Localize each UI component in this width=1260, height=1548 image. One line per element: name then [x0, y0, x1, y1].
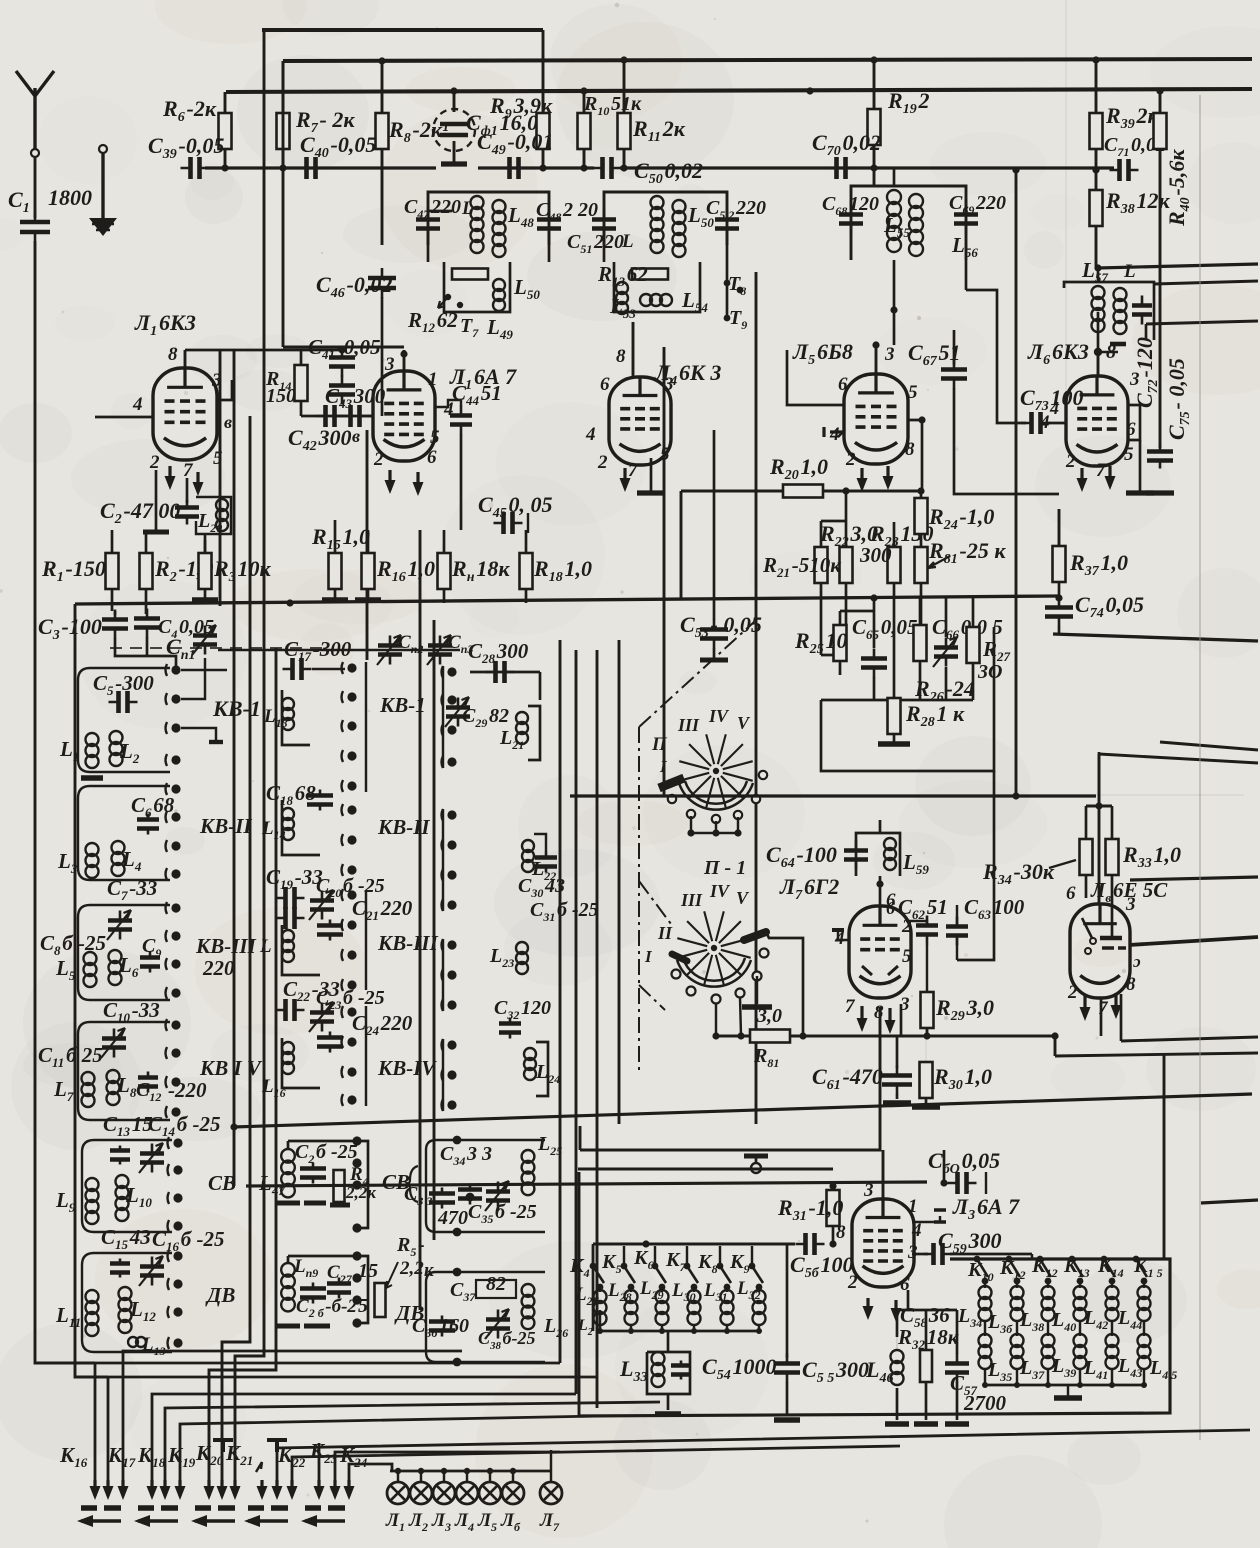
- switch contact col3 KV-III 2: [447, 970, 456, 979]
- svg-text:L: L: [1123, 261, 1136, 282]
- cathode arrow L5: [860, 468, 863, 488]
- svg-text:3: 3: [384, 354, 395, 375]
- switch contact col1 DV 2: [173, 1279, 182, 1288]
- resistor R16: [362, 553, 375, 589]
- potentiometer R81-25k: [915, 547, 928, 583]
- ground stub wafer2: [756, 976, 758, 1004]
- svg-text:5: 5: [1124, 444, 1134, 465]
- inductor L29: [656, 1290, 669, 1303]
- svg-text:470: 470: [437, 1207, 468, 1229]
- svg-text:R34 -30к: R34 -30к: [982, 859, 1055, 888]
- resistor R38: [1090, 190, 1103, 226]
- capacitor C5: [109, 701, 138, 704]
- resistor R14: [295, 365, 308, 401]
- wire exit right y268: [1098, 264, 1258, 268]
- contact ring w2 e: [753, 972, 762, 981]
- resistor R24: [915, 498, 928, 534]
- wire C69 down: [965, 260, 968, 290]
- wire C1 down left edge to K16 fan: [35, 241, 95, 1363]
- cathode arrow L3 b: [894, 1300, 897, 1318]
- resistor R8: [376, 113, 389, 149]
- inductor L16: [282, 1042, 294, 1054]
- left arrow: [195, 1519, 235, 1522]
- switch contact col2 KV-III 4: [347, 980, 356, 989]
- svg-text:C5 2 220: C5 2 220: [706, 197, 766, 222]
- wire C3 C4 bottoms to KV-I box: [115, 638, 176, 666]
- svg-text:2: 2: [597, 452, 608, 473]
- wire L8 cathode down: [1100, 998, 1103, 1036]
- wire col3 SV box: [426, 1140, 545, 1232]
- contact dot col3 DV top: [453, 1268, 462, 1277]
- inductor L50b: [673, 200, 686, 213]
- capacitor C39: [181, 167, 210, 170]
- tube L4 6K3: [609, 377, 671, 465]
- wire M9 y1124: [233, 1094, 1252, 1127]
- switch contact col1 KV-II 4: [171, 869, 180, 878]
- svg-text:-220: -220: [168, 1078, 207, 1102]
- svg-text:CбО 0,05: CбО 0,05: [928, 1148, 1000, 1177]
- svg-text:П: П: [651, 734, 668, 755]
- trimmer C29: [457, 698, 460, 727]
- resistor R12: [452, 269, 488, 280]
- switch contact col2 KV-IV 1: [347, 1007, 356, 1016]
- cathode arrow L2: [388, 470, 391, 490]
- IF transformer L55 L56 box: [851, 186, 966, 207]
- resistor R2: [140, 553, 153, 589]
- wire L3 pin3 top: [882, 1150, 885, 1199]
- signal lamp P2: [410, 1482, 432, 1504]
- switch contact col2 KV-III 3: [347, 950, 356, 959]
- wire exit right y879: [1130, 877, 1258, 880]
- jack symbol: [744, 1154, 768, 1159]
- wire L3 pin5 to C59: [912, 1253, 928, 1256]
- wire col2 KV-III bracket: [365, 890, 367, 990]
- inductor L2: [110, 731, 123, 744]
- inductor L47: [471, 196, 484, 209]
- switch contact col1 KV-III 4: [171, 988, 180, 997]
- wire pin8 top L1: [184, 350, 187, 368]
- wire col3 KV-IV coil: [536, 1042, 548, 1096]
- capacitor C4: [146, 609, 149, 638]
- svg-text:3: 3: [1125, 894, 1136, 915]
- inductor L7: [82, 1072, 95, 1085]
- wire C46 down to grid row: [381, 297, 384, 416]
- signal lamp P3: [433, 1482, 455, 1504]
- svg-text:6: 6: [427, 447, 437, 468]
- wire x756 long vertical: [755, 272, 758, 1124]
- capacitor C57: [956, 1354, 959, 1383]
- wire L1 top to Л2 row: [185, 349, 342, 352]
- svg-text:C49 -0,01: C49 -0,01: [477, 129, 553, 158]
- cathode arrow L2 b: [416, 472, 419, 492]
- switch contact col1 KV-III 3: [171, 959, 180, 968]
- wire L4 cathode to gnd bar: [650, 458, 653, 491]
- tube L8 6E5S: [1070, 904, 1130, 998]
- band KV-III bank box col1: [78, 905, 170, 1000]
- wire M5 y796: [570, 794, 1096, 797]
- switch contact K7: [684, 1263, 691, 1270]
- capacitor C56: [796, 1243, 825, 1246]
- svg-text:8: 8: [168, 344, 178, 365]
- band DV bank box col1: [82, 1253, 172, 1352]
- node M2 R19: [870, 594, 877, 601]
- capacitor C64: [855, 841, 858, 870]
- svg-text:C65 0,05: C65 0,05: [852, 615, 918, 642]
- svg-text:C2 б -25: C2 б -25: [295, 1141, 358, 1166]
- wire col2 KV-III: [282, 925, 320, 975]
- switch box K10-K15 outline: [579, 1259, 1170, 1416]
- wire col3 KV-I coil: [528, 706, 540, 760]
- wire L3 pin6 down: [907, 1290, 910, 1310]
- capacitor C36: [441, 1316, 444, 1337]
- inductor L5: [84, 952, 97, 965]
- svg-text:КВ-IІІ: КВ-IІІ: [195, 934, 257, 958]
- node lamp 2: [418, 1468, 424, 1474]
- wire L5 pin5 to R20 row: [908, 420, 922, 489]
- switch contact col1 KV-IV 4: [171, 1107, 180, 1116]
- wire K10 top line: [950, 1258, 1170, 1261]
- svg-text:R1 -150: R1 -150: [41, 556, 106, 585]
- inductor L8: [107, 1070, 120, 1083]
- board edge dash pair: [138, 1505, 178, 1511]
- switch contact col3 KV-I 3: [447, 725, 456, 734]
- output arrow 12: [290, 1480, 293, 1496]
- switch contact col1 DV 4: [173, 1338, 182, 1347]
- resistor R37: [1053, 546, 1066, 582]
- resistor R20: [783, 485, 823, 498]
- svg-text:C14 б -25: C14 б -25: [148, 1112, 221, 1139]
- svg-text:R6 -2к: R6 -2к: [162, 96, 217, 125]
- inductor L4: [112, 841, 125, 854]
- wire R22 top: [845, 491, 848, 547]
- output arrow 10: [260, 1480, 263, 1496]
- wire fan K24b: [335, 1452, 560, 1480]
- trimmer C20: [321, 891, 324, 920]
- inductor L46: [891, 1350, 904, 1363]
- wire bundle x367: [366, 430, 369, 660]
- wire C59 to K10 box: [950, 1253, 1032, 1256]
- output arrow 15: [347, 1480, 350, 1496]
- wire L7 pin6 up: [879, 876, 882, 906]
- inductor L24: [524, 1048, 536, 1060]
- wire L1 grid left: [95, 416, 153, 419]
- capacitor C27: [338, 1278, 341, 1299]
- wire under wafer1: [691, 832, 738, 834]
- svg-text:6: 6: [1066, 883, 1076, 904]
- wire C63 right riser: [957, 771, 994, 960]
- eye electrode L8: [1100, 936, 1122, 940]
- inductor L39 lower: [1042, 1334, 1055, 1347]
- terminal bars col2 DV: [276, 1324, 330, 1329]
- capacitor C17: [283, 668, 312, 671]
- wire R20 row y491: [681, 490, 921, 493]
- switch contact col1 DV 1: [173, 1251, 182, 1260]
- trimmer C16 body: [151, 1257, 154, 1286]
- wire fan K18: [123, 1351, 462, 1480]
- switch contact K5: [621, 1263, 628, 1270]
- output arrow 1: [93, 1480, 96, 1496]
- wire col3 KV-III bracket: [442, 939, 444, 1011]
- svg-text:C54 1000: C54 1000: [702, 1354, 777, 1383]
- svg-text:КВ-II: КВ-II: [377, 815, 430, 839]
- inductor L26: [522, 1284, 535, 1297]
- capacitor C67: [953, 360, 956, 389]
- ground below R30: [912, 1104, 940, 1110]
- svg-text:15: 15: [358, 1260, 378, 1282]
- svg-text:R33 1,0: R33 1,0: [1122, 842, 1181, 871]
- svg-text:R18 1,0: R18 1,0: [533, 556, 592, 585]
- inductor L56: [909, 194, 923, 208]
- switch contact T7: [445, 294, 451, 300]
- switch contact K10: [974, 1256, 981, 1263]
- capacitor C63: [956, 917, 959, 946]
- switch contact col3 KV-II 3: [447, 870, 456, 879]
- wire cluster link y655: [821, 654, 846, 657]
- svg-text:II: II: [657, 923, 673, 943]
- svg-text:7: 7: [1098, 998, 1109, 1019]
- svg-text:2: 2: [901, 916, 912, 937]
- resistor R21: [815, 547, 828, 583]
- inductor L57: [1092, 286, 1105, 299]
- wire K4 box top: [593, 1243, 752, 1245]
- resistor R26: [914, 625, 927, 661]
- contact ring w1 a: [668, 795, 676, 803]
- IF transformer L47 L48 box: [428, 192, 549, 245]
- inductor L11: [86, 1290, 99, 1303]
- capacitor C21: [329, 920, 332, 941]
- node bus3-Cf1: [450, 87, 457, 94]
- inductor L59: [884, 838, 896, 850]
- resistor R1: [106, 553, 119, 589]
- ground below C61: [883, 1100, 911, 1106]
- node lamp 4: [464, 1468, 470, 1474]
- node bus2-R11: [620, 56, 627, 63]
- switch contact col1 KV-IV 2: [171, 1048, 180, 1057]
- band KV-I bank box col1: [78, 668, 170, 772]
- resistor R6: [219, 113, 232, 149]
- capacitor C13 body: [119, 1146, 122, 1165]
- ground below R28: [878, 741, 910, 747]
- mechanical link dashed line: [218, 649, 460, 651]
- output arrow 14: [333, 1480, 336, 1496]
- trimmer C35: [497, 1182, 500, 1211]
- svg-text:C40 -0,05: C40 -0,05: [300, 132, 376, 161]
- inductor L53: [616, 282, 628, 294]
- trimmer C11: [113, 1029, 116, 1058]
- svg-text:C69 220: C69 220: [949, 192, 1006, 217]
- capacitor C2 4700: [186, 500, 189, 525]
- output arrow 2: [106, 1480, 109, 1496]
- output arrow 13: [317, 1480, 320, 1496]
- output arrow 11: [275, 1480, 278, 1496]
- capacitor C20 body: [276, 917, 305, 920]
- left arrow: [305, 1519, 345, 1522]
- wire exit right y1203: [1201, 1200, 1258, 1203]
- svg-text:C50 0,02: C50 0,02: [634, 158, 703, 187]
- switch contact col2 KV-III 1: [347, 890, 356, 899]
- switch contact col3 KV-II 1: [447, 810, 456, 819]
- node pin8 L6: [1094, 348, 1102, 356]
- inductor L9: [86, 1178, 99, 1191]
- svg-text:300: 300: [859, 543, 892, 567]
- switch contact col2 KV-I 4: [347, 751, 356, 760]
- wire L1 pin3 to grid cap: [217, 380, 232, 400]
- IF transformer L57 L58 box: [1064, 282, 1154, 340]
- capacitor C47: [427, 210, 430, 239]
- resistor R10: [578, 113, 591, 149]
- resistor R31: [827, 1190, 840, 1226]
- switch contact col2 SV 1: [352, 1136, 361, 1145]
- inductor L22: [522, 840, 534, 852]
- capacitor C6: [147, 814, 150, 835]
- svg-text:П - 1: П - 1: [703, 857, 746, 879]
- wire riser x1099 to R bar: [1098, 752, 1101, 806]
- capacitor C15 body: [119, 1259, 122, 1278]
- wire antenna to C1: [34, 157, 37, 218]
- node bus3: [806, 87, 813, 94]
- wire fan lamp feed: [349, 1464, 392, 1480]
- wire bottom section left edge: [578, 1172, 581, 1416]
- switch contact col1 SV 1: [173, 1138, 182, 1147]
- wire C44 down: [460, 434, 463, 530]
- inductor L10: [116, 1175, 129, 1188]
- inductor L21: [516, 712, 528, 724]
- svg-text:1800: 1800: [48, 185, 92, 210]
- wire bus3 to R40: [1159, 91, 1162, 113]
- wire top bus 3: [226, 89, 1252, 92]
- wire wafer2 pin down b: [740, 997, 741, 1036]
- switch contact K4: [590, 1263, 597, 1270]
- capacitor C25: [312, 1163, 315, 1184]
- resistor R29 3.0: [921, 992, 934, 1028]
- wire fan K20: [165, 1402, 660, 1480]
- wire L1 pin7 to C2: [186, 478, 189, 503]
- wire col3 KV-IV bracket: [442, 1039, 444, 1111]
- switch contact col1 KV-I 4: [171, 755, 180, 764]
- svg-text:C31 б -25: C31 б -25: [530, 899, 599, 924]
- resistor R27: [967, 627, 980, 663]
- switch contact col2 KV-II 3: [347, 865, 356, 874]
- wire C67 to R37: [954, 388, 1059, 494]
- svg-text:4: 4: [1049, 398, 1059, 418]
- switch contact col2 SV 2: [352, 1158, 361, 1167]
- svg-text:R37 1,0: R37 1,0: [1069, 550, 1128, 579]
- wire bundle x234: [233, 350, 236, 1186]
- switch contact col1 KV-II 1: [171, 784, 180, 793]
- wire vertical x1164 down to K10 box: [1163, 1055, 1166, 1259]
- wire step x1055 to y1055: [1054, 1036, 1057, 1056]
- capacitor C59: [924, 1253, 953, 1256]
- cathode arrow L7 b: [888, 1008, 891, 1030]
- contact dot col3 DV bottom: [453, 1358, 462, 1367]
- wire L3 pin1 stub: [912, 1216, 940, 1222]
- inductor L42 upper: [1106, 1286, 1119, 1299]
- wire bundle x434: [433, 620, 436, 1240]
- resistor R13 body: [632, 269, 668, 280]
- switch contact col1 KV-IV 3: [171, 1077, 180, 1086]
- svg-text:Л7 6Г2: Л7 6Г2: [779, 874, 839, 903]
- svg-text:8: 8: [1126, 974, 1136, 995]
- switch contact col2 KV-IV 4: [347, 1095, 356, 1104]
- wire L57 top: [1097, 268, 1100, 282]
- wire y752 from x1099: [1098, 754, 1101, 905]
- wire L6 grid riser: [1065, 0, 1067, 424]
- trimmer Cp2 at top col2: [389, 636, 392, 665]
- capacitor C32: [509, 1018, 512, 1039]
- coil L20 box: [196, 497, 231, 534]
- inductor L36 upper: [1011, 1286, 1024, 1299]
- svg-text:R40 -5,6к: R40 -5,6к: [1164, 149, 1193, 227]
- board edge dash pair: [81, 1505, 121, 1511]
- wire L59 top up: [879, 820, 882, 833]
- wire col2 KV-I bracket: [365, 662, 367, 792]
- wire long vertical x576: [575, 650, 578, 1394]
- wire R40 down to C75: [1159, 149, 1162, 448]
- capacitor C70: [827, 167, 856, 170]
- svg-text:C28 300: C28 300: [468, 639, 529, 666]
- svg-text:C46 -0,02: C46 -0,02: [316, 272, 392, 301]
- resistor R32: [920, 1350, 932, 1382]
- switch contact K15: [1133, 1256, 1140, 1263]
- wire long vertical x597: [596, 650, 599, 1408]
- contact ring w1 d: [734, 811, 742, 819]
- contact ring w2 b: [687, 987, 696, 996]
- svg-text:СВ: СВ: [208, 1171, 236, 1195]
- capacitor C65: [873, 649, 876, 678]
- contact dot col3 SV top: [453, 1136, 462, 1145]
- capacitor C50: [593, 167, 622, 170]
- switch contact col1 KV-III 1: [171, 903, 180, 912]
- svg-text:R29 3,0: R29 3,0: [935, 995, 994, 1024]
- resistor R18: [520, 553, 533, 589]
- svg-text:150: 150: [266, 385, 296, 407]
- wire col2 KV-II: [282, 800, 320, 855]
- svg-text:R20 1,0: R20 1,0: [769, 454, 828, 483]
- contact dot col3 SV bottom: [453, 1228, 462, 1237]
- svg-text:1: 1: [428, 369, 438, 390]
- wire x714 down to C53: [713, 430, 716, 620]
- ground stub at pin8: [1098, 351, 1118, 353]
- svg-text:82: 82: [486, 1273, 506, 1295]
- svg-text:Л5 6Б8: Л5 6Б8: [792, 339, 853, 368]
- wire bundle x264 from bus1 to arrow: [235, 30, 264, 1480]
- svg-text:C41 -0,05: C41 -0,05: [308, 335, 381, 362]
- capacitor C60: [943, 1150, 946, 1183]
- svg-text:3О: 3О: [977, 661, 1002, 683]
- switch contact col2 SV 3: [352, 1180, 361, 1189]
- stub contact 3: [181, 728, 216, 740]
- node bus2-R8: [378, 57, 385, 64]
- wire pin8 top L4: [632, 352, 635, 377]
- resistor R30: [920, 1062, 933, 1098]
- resistor R34 30k: [1080, 839, 1093, 875]
- capacitor C33: [441, 1188, 444, 1209]
- switch contact col3 KV-II 2: [447, 840, 456, 849]
- rotor wiper wafer 2 lower left: [672, 954, 687, 961]
- wire fan K23 long bottom line: [277, 1430, 1250, 1480]
- inductor L35 lower: [979, 1334, 992, 1347]
- svg-text:в: в: [224, 412, 232, 432]
- wire pin1 to C44: [435, 400, 461, 407]
- resistor R81 3.0: [750, 1030, 790, 1043]
- wire C73 left riser x997: [966, 290, 1026, 423]
- svg-text:V: V: [737, 713, 751, 733]
- electrolytic capacitor Cf1: [453, 91, 456, 112]
- wire left edge vertical x75 to K17 fan: [75, 604, 108, 1377]
- svg-text:6: 6: [838, 374, 848, 395]
- antenna W1: [16, 71, 35, 150]
- switch contact col2 DV 4: [352, 1318, 361, 1327]
